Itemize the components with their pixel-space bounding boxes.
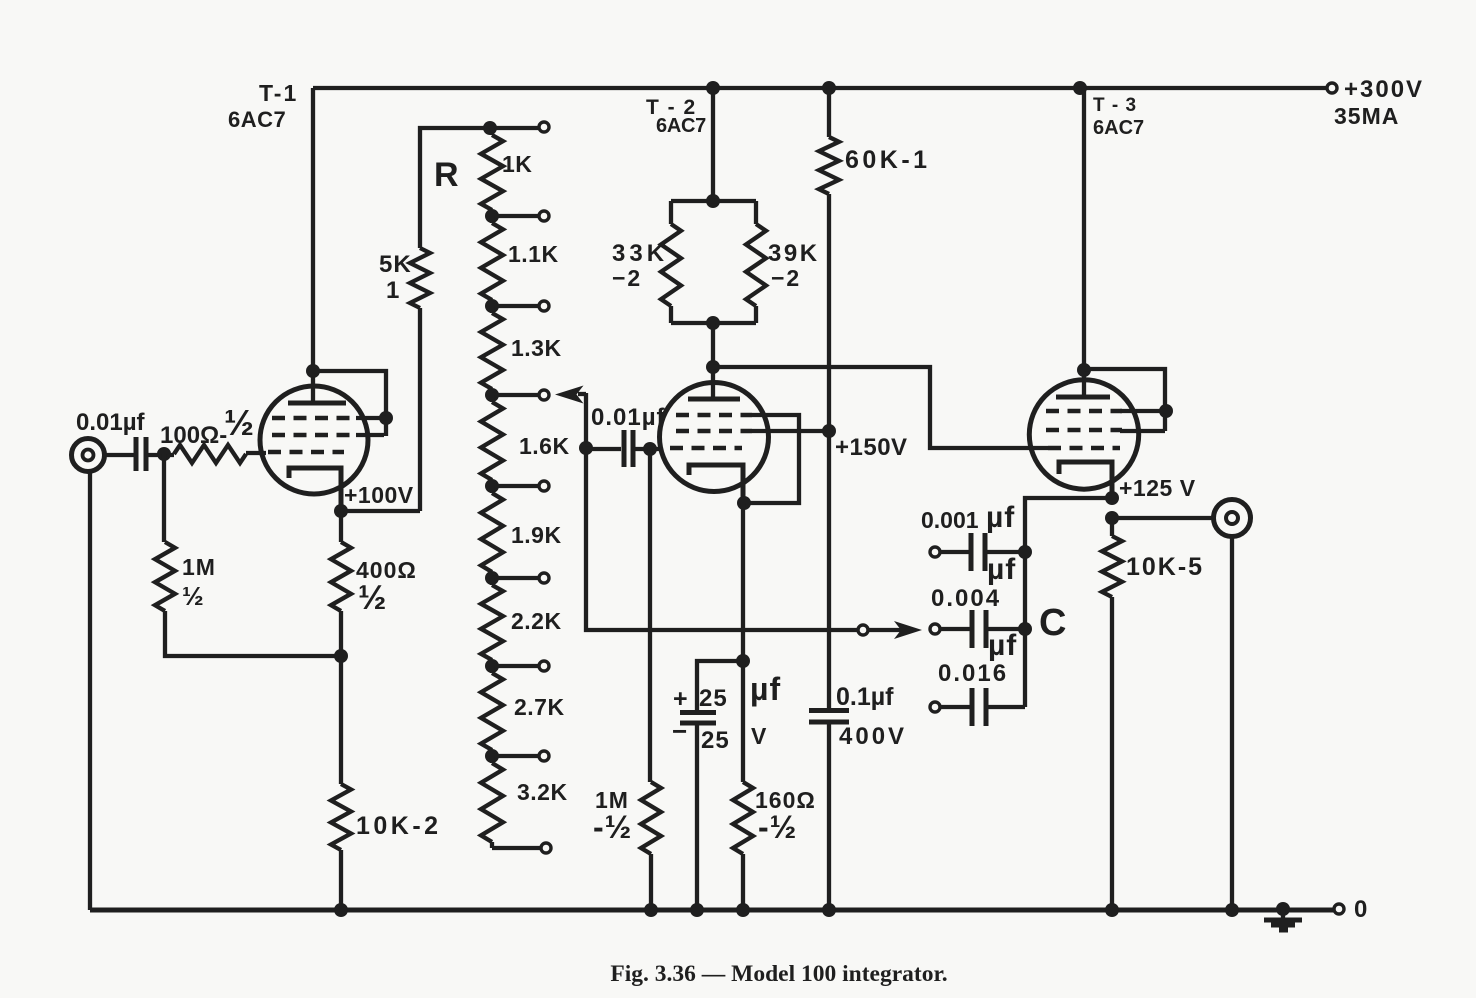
terminal: ladder bottom tap <box>541 843 551 853</box>
svg-text:5K: 5K <box>379 251 412 278</box>
wire: R selector to T-2 grid / C selector <box>586 393 858 630</box>
T-1 cathode <box>289 468 341 511</box>
wire: ladder tap <box>492 754 539 758</box>
terminal: ladder tap 7 <box>539 751 549 761</box>
resistor 1.3K (ladder) <box>490 306 494 313</box>
svg-text:Fig. 3.36 — Model 100 integrat: Fig. 3.36 — Model 100 integrator. <box>610 961 947 987</box>
wire: cathode node to 5K branch <box>341 509 420 513</box>
svg-text:+300V: +300V <box>1344 76 1424 103</box>
T-3 cathode <box>1059 462 1112 498</box>
wire: ladder tap <box>492 393 539 397</box>
terminal: ladder tap 2 <box>539 301 549 311</box>
svg-text:0.016: 0.016 <box>938 660 1008 687</box>
terminal: ladder tap 5 <box>539 573 549 583</box>
tube T-2 6AC7 envelope <box>660 383 769 492</box>
svg-text:0.004: 0.004 <box>931 585 1001 612</box>
terminal: ladder tap 3 <box>539 390 549 400</box>
svg-text:0.01µf: 0.01µf <box>76 409 146 436</box>
arrow: C selector <box>869 628 902 632</box>
node: plate load bottom <box>706 316 720 330</box>
svg-text:0.1µf: 0.1µf <box>836 683 894 711</box>
T-3 plate bar <box>1056 395 1110 400</box>
wire: cathode to C bank common <box>1025 498 1112 707</box>
node: T-1 suppressor tie <box>379 411 393 425</box>
terminal: +300V supply <box>1327 83 1337 93</box>
node: cathode / 25uf branch <box>736 654 750 668</box>
node: ladder tap 5 <box>485 571 499 585</box>
svg-text:V: V <box>751 723 767 749</box>
resistor 10K-2 <box>339 656 343 784</box>
resistor 1.1K (ladder) <box>490 216 494 223</box>
wire: ladder bottom tap <box>492 846 541 850</box>
terminal: signal input <box>72 439 105 472</box>
wire: input terminal ground drop <box>88 470 92 910</box>
node: C bank common (0.004) <box>1018 622 1032 636</box>
node: top rail / T-2 plate branch <box>706 81 720 95</box>
svg-text:39K: 39K <box>768 240 820 267</box>
svg-text:10K-2: 10K-2 <box>356 812 442 840</box>
node: C bank common (0.001) <box>1018 545 1032 559</box>
wire: ladder top tap <box>490 126 539 130</box>
T-2 plate bar <box>688 397 740 402</box>
svg-text:µf: µf <box>986 501 1015 534</box>
node: T-3 plate/grid-tie junction <box>1077 363 1091 377</box>
wire: input to coupling cap <box>103 453 134 457</box>
node: T-2 cathode / suppressor tie <box>737 496 751 510</box>
ground symbol <box>1281 909 1285 919</box>
T-2 grid 2 (screen, dashed) <box>676 429 752 434</box>
node: 10K-5 to ground <box>1105 903 1119 917</box>
resistor 1.9K (ladder) <box>490 486 494 493</box>
svg-text:+100V: +100V <box>344 482 414 508</box>
resistor 400ohm 1/2 <box>339 511 343 542</box>
wire: T-2 plate lead from rail <box>711 88 715 201</box>
node: chassis ground <box>1276 902 1290 916</box>
node: ladder tap 6 <box>485 659 499 673</box>
T-2 grid 3 (suppressor, dashed) <box>676 413 752 418</box>
svg-text:-½: -½ <box>758 809 797 845</box>
svg-text:R: R <box>434 156 459 194</box>
capacitor 0.004uf (C bank) <box>930 624 940 634</box>
node: 0.1uf to ground <box>822 903 836 917</box>
svg-text:35MA: 35MA <box>1334 103 1399 129</box>
wire: T-1 screen+suppressor tie to plate <box>313 371 386 436</box>
wire: T-3 screen+suppressor tie to plate <box>1084 369 1165 431</box>
tube T-3 6AC7 envelope <box>1029 380 1138 489</box>
node: 1M to ground <box>644 903 658 917</box>
svg-text:C: C <box>1039 602 1066 644</box>
arrow: R tap selector <box>555 386 584 404</box>
resistor 3.2K (ladder) <box>490 756 494 763</box>
wire: +300V supply rail (top) <box>313 86 1327 90</box>
node: 10K-2 to ground <box>334 903 348 917</box>
node: 25uf to ground <box>690 903 704 917</box>
wire: cap to grid resistor <box>148 453 174 457</box>
resistor 1M 1/2 input leak <box>162 454 166 542</box>
terminal: ladder tap 4 <box>539 481 549 491</box>
svg-text:1.1K: 1.1K <box>508 241 559 267</box>
wire: ladder tap <box>492 304 539 308</box>
node: ladder tap 1 <box>485 209 499 223</box>
svg-text:2.7K: 2.7K <box>514 694 565 720</box>
wire: ladder tap <box>492 214 539 218</box>
svg-text:µf: µf <box>750 671 781 707</box>
node: ladder top <box>483 121 497 135</box>
terminal: ladder tap 6 <box>539 661 549 671</box>
svg-text:1: 1 <box>386 277 400 304</box>
node: T-1 cathode +100V <box>334 504 348 518</box>
svg-text:1K: 1K <box>502 151 532 177</box>
node: input junction (1M leak) <box>157 447 171 461</box>
svg-text:6AC7: 6AC7 <box>228 107 286 132</box>
svg-text:µf: µf <box>988 629 1017 662</box>
svg-text:0.001: 0.001 <box>921 507 979 533</box>
node: T-3 suppressor tie <box>1159 404 1173 418</box>
resistor 10K-5 cathode load <box>1110 518 1114 536</box>
node: T-2 plate / coupling to T-3 <box>706 360 720 374</box>
node: ladder tap 4 <box>485 479 499 493</box>
capacitor 0.01uf T-2 coupling <box>586 447 621 451</box>
svg-text:0.01µf: 0.01µf <box>591 404 666 431</box>
svg-text:1.3K: 1.3K <box>511 335 562 361</box>
node: ladder tap 2 <box>485 299 499 313</box>
wire: cathode to output terminal <box>1112 516 1214 520</box>
svg-text:-½: -½ <box>593 809 632 845</box>
tube T-1 6AC7 envelope <box>260 386 368 494</box>
svg-text:−2: −2 <box>771 265 801 291</box>
T-3 grid 2 (screen, dashed) <box>1046 428 1122 433</box>
node: T-2 grid / 1M junction <box>643 442 657 456</box>
svg-text:3.2K: 3.2K <box>517 779 568 805</box>
svg-text:60K-1: 60K-1 <box>845 146 931 174</box>
wire: T-2 screen to +150V <box>752 429 829 433</box>
T-3 grid 1 (control, dashed) <box>1048 446 1120 451</box>
node: +150V screen supply <box>822 424 836 438</box>
wire: T-1 plate lead to supply rail <box>311 88 315 401</box>
T-2 grid 1 (control, dashed) <box>670 446 742 451</box>
svg-text:1M: 1M <box>182 554 216 580</box>
svg-text:400V: 400V <box>839 723 907 750</box>
wire: plate load to T-2 plate <box>711 323 715 399</box>
node: ladder tap 7 <box>485 749 499 763</box>
svg-text:2.2K: 2.2K <box>511 608 562 634</box>
capacitor 0.1uf 400V screen bypass <box>809 708 849 713</box>
capacitor 0.001uf (C bank) <box>930 547 940 557</box>
wire: ladder tap <box>492 664 539 668</box>
svg-text:6AC7: 6AC7 <box>1093 117 1144 139</box>
svg-text:+: + <box>673 685 689 713</box>
svg-text:T-1: T-1 <box>259 80 298 106</box>
node: T-2 coupling junction <box>579 441 593 455</box>
svg-text:µf: µf <box>987 553 1016 586</box>
node: top rail / T-3 plate branch <box>1073 81 1087 95</box>
resistor 5K-1 <box>418 308 422 511</box>
T-2 cathode <box>689 465 743 503</box>
T-3 grid 3 (suppressor, dashed) <box>1046 409 1122 414</box>
resistor 160ohm -1/2 cathode bias <box>741 661 745 782</box>
T-1 plate bar <box>288 401 346 406</box>
resistor 100ohm-1/2 grid stopper <box>174 445 246 463</box>
svg-text:1.6K: 1.6K <box>519 433 570 459</box>
resistor 1K (ladder) <box>490 128 494 135</box>
svg-text:33K: 33K <box>612 240 668 267</box>
capacitor 0.016uf (C bank) <box>930 702 940 712</box>
node: top rail / 60K branch <box>822 81 836 95</box>
svg-text:10K-5: 10K-5 <box>1126 553 1204 581</box>
node: output branch <box>1105 511 1119 525</box>
wire: T-3 plate lead <box>1082 88 1086 397</box>
T-1 grid 3 (suppressor, dashed) <box>272 416 356 421</box>
svg-text:25: 25 <box>699 685 728 712</box>
resistor 2.2K (ladder) <box>490 578 494 585</box>
resistor 33K-2 plate load <box>671 199 756 203</box>
svg-text:½: ½ <box>224 402 254 443</box>
svg-text:+125 V: +125 V <box>1119 475 1196 501</box>
capacitor 0.01uf input coupling <box>134 437 139 471</box>
svg-text:+150V: +150V <box>835 434 908 461</box>
terminal: C selector wiper <box>858 625 868 635</box>
wire: T-2 cathode down <box>741 503 745 661</box>
node: plate load top <box>706 194 720 208</box>
svg-text:T - 3: T - 3 <box>1093 95 1137 116</box>
node: T-1 plate/grid-tie junction <box>306 364 320 378</box>
wire: ground rail (bottom) <box>90 908 1334 913</box>
svg-text:½: ½ <box>182 581 204 611</box>
svg-text:−2: −2 <box>612 265 642 291</box>
svg-text:½: ½ <box>358 579 387 617</box>
node: 160ohm to ground <box>736 903 750 917</box>
node: output drop to ground <box>1225 903 1239 917</box>
svg-text:−: − <box>672 716 688 746</box>
wire: output terminal ground drop <box>1230 536 1234 910</box>
wire: ladder tap <box>492 576 539 580</box>
T-1 grid 1 (control, dashed) <box>268 450 344 455</box>
wire: T-2 plate to T-3 grid (direct coupling) <box>713 367 1048 448</box>
resistor 1M -1/2 grid leak <box>648 449 652 782</box>
terminal: output <box>1214 500 1251 537</box>
svg-text:25: 25 <box>701 727 730 754</box>
node: ladder tap 3 <box>485 388 499 402</box>
wire: T-2 suppressor to cathode <box>744 415 799 503</box>
wire: ladder tap <box>492 484 539 488</box>
node: 400ohm / 1M / 10K-2 junction <box>334 649 348 663</box>
terminal: ladder tap 1 <box>539 211 549 221</box>
resistor 39K-2 plate load <box>754 201 758 224</box>
T-1 grid 2 (screen, dashed) <box>272 433 356 438</box>
svg-text:100Ω-: 100Ω- <box>160 422 227 449</box>
terminal: 0 V reference <box>1334 904 1344 914</box>
resistor 60K-1 screen dropper <box>827 88 831 137</box>
capacitor 25uf 25V cathode bypass <box>697 661 743 712</box>
svg-text:1.9K: 1.9K <box>511 522 562 548</box>
wire: grid stopper to T-1 grid <box>246 451 266 455</box>
resistor 1.6K (ladder) <box>490 395 494 402</box>
node: T-3 cathode +125V <box>1105 491 1119 505</box>
resistor 2.7K (ladder) <box>490 666 494 673</box>
svg-text:6AC7: 6AC7 <box>656 115 706 137</box>
terminal: ladder tap 0 <box>539 122 549 132</box>
svg-text:0: 0 <box>1354 896 1368 923</box>
